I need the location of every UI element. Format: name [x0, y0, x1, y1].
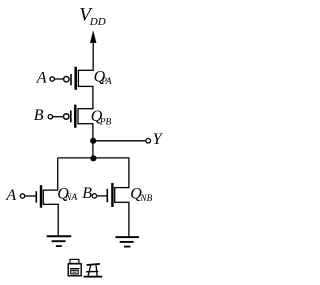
wire QPA drain to QPB source [92, 86, 94, 108]
svg-text:PB: PB [99, 117, 112, 127]
node Y junction dot [90, 138, 96, 144]
QPB label [91, 108, 112, 127]
char 五 [87, 264, 100, 265]
wire A to QNA gate [25, 195, 35, 197]
svg-text:A: A [5, 187, 16, 204]
power net VDD label [79, 4, 106, 28]
wire QPB drain to output node [92, 124, 94, 158]
power arrow VDD [90, 30, 96, 71]
svg-text:A: A [36, 70, 47, 87]
terminal A (bottom) [20, 194, 24, 198]
figure caption "圖五" drawn as strokes [68, 259, 102, 276]
wire QNA source to ground [57, 204, 59, 236]
QNA label [57, 185, 77, 203]
transistor QNA (NMOS) [36, 185, 59, 208]
wire bus to NMOS drains [58, 158, 130, 190]
QPA label [94, 69, 112, 88]
terminal Y [146, 139, 151, 144]
transistor QPB (PMOS) [63, 105, 93, 128]
svg-text:NA: NA [64, 193, 77, 203]
svg-text:B: B [34, 107, 44, 124]
terminal B (top) [48, 115, 52, 119]
wire QNB source to ground [128, 202, 130, 236]
QNB label [130, 186, 152, 204]
svg-text:NB: NB [139, 194, 152, 204]
transistor QNB (NMOS) [107, 183, 129, 207]
transistor QPA (PMOS) [64, 67, 94, 90]
wire node to Y terminal [93, 140, 145, 142]
terminal B (bottom) [92, 194, 96, 198]
svg-text:B: B [82, 185, 92, 202]
junction dot at NMOS bus [90, 155, 96, 161]
wire A to QPA gate [55, 78, 64, 80]
svg-text:DD: DD [89, 16, 106, 28]
wire B to QPB gate [53, 116, 64, 118]
terminal A (top) [50, 77, 54, 81]
wire B to QNB gate [97, 195, 107, 197]
ground (left) [47, 236, 71, 246]
ground (right) [116, 237, 139, 247]
svg-text:PA: PA [100, 77, 112, 87]
char 圖 [70, 259, 79, 263]
